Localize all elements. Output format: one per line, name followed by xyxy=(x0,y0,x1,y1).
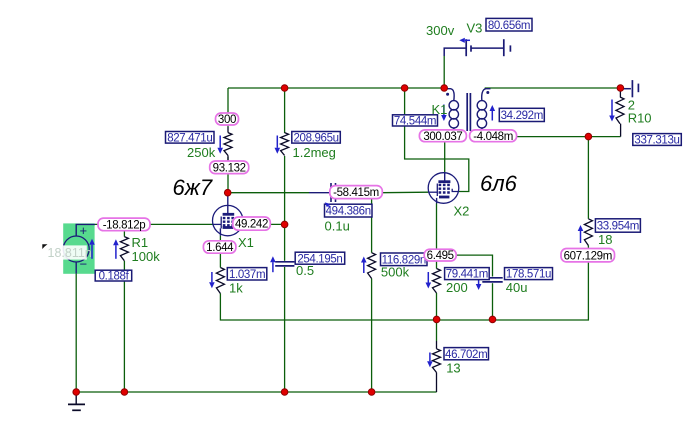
current label 33.954m xyxy=(595,219,640,232)
svg-text:93.132: 93.132 xyxy=(213,162,246,174)
current label 0.188f xyxy=(95,270,132,281)
wire 200 ohm leads xyxy=(436,261,438,269)
vacuum tube X1 cathode xyxy=(223,226,234,229)
transformer K1 secondary winding xyxy=(482,89,491,101)
transformer K1 primary current arrow xyxy=(443,105,445,116)
wire 1k bottom / mid bus / riser to 18 ohm xyxy=(220,246,588,321)
capacitor 0.5 screen bypass xyxy=(275,261,294,263)
wire transformer secondary bottom to R10 bottom xyxy=(500,136,621,138)
svg-text:0.188f: 0.188f xyxy=(99,271,130,283)
resistor 1k cathode xyxy=(216,268,224,294)
svg-text:18: 18 xyxy=(598,232,612,247)
node voltage label 300 xyxy=(216,113,239,125)
wire grid node to X1 grid xyxy=(95,223,213,225)
wire X1 screen to 1.2meg node xyxy=(243,223,285,225)
wire AC source top lead xyxy=(76,224,95,236)
svg-text:500k: 500k xyxy=(381,264,410,279)
node voltage label 1.644 xyxy=(203,241,236,253)
current label 494.386n xyxy=(325,204,373,217)
current label 74.544m xyxy=(393,115,438,126)
svg-text:X2: X2 xyxy=(454,204,470,219)
wire R1 top lead xyxy=(123,230,125,236)
wire X1 plate node to 0.1u cap xyxy=(228,192,309,194)
current label 827.471u xyxy=(166,132,215,144)
transformer K1 secondary current arrow xyxy=(491,111,493,121)
capacitor 40u xyxy=(482,277,502,279)
svg-text:33.954m: 33.954m xyxy=(597,221,639,233)
vacuum tube X2 screen jog xyxy=(452,189,459,192)
svg-text:1.037m: 1.037m xyxy=(229,269,265,281)
svg-text:74.544m: 74.544m xyxy=(394,116,436,128)
svg-text:337.313u: 337.313u xyxy=(634,135,679,147)
svg-text:6ж7: 6ж7 xyxy=(173,175,213,200)
wire 0.1u cap to X2 grid xyxy=(382,191,428,194)
wire 500k bottom to bottom bus xyxy=(371,279,373,393)
ground symbol top right xyxy=(620,88,631,90)
wire AC source bottom to bottom bus xyxy=(75,274,77,392)
wire R1 bottom to bottom bus xyxy=(123,261,125,392)
svg-text:1.2meg: 1.2meg xyxy=(293,145,336,160)
svg-text:208.965u: 208.965u xyxy=(294,132,339,144)
svg-text:34.292m: 34.292m xyxy=(501,110,543,122)
svg-text:-58.415m: -58.415m xyxy=(333,187,379,199)
wire 40u cap bottom to mid bus xyxy=(492,283,494,319)
wire 0.5 cap bottom to bottom bus xyxy=(284,267,286,392)
wire 13 ohm top lead from mid bus xyxy=(436,319,438,341)
node voltage label 300.037 xyxy=(419,130,466,142)
resistor 500k grid leak xyxy=(368,253,376,279)
svg-text:300: 300 xyxy=(218,114,236,126)
svg-text:V3: V3 xyxy=(467,21,483,36)
node voltage label -58.415m xyxy=(330,186,383,199)
AC source value tooltip 18.811n xyxy=(45,245,87,259)
svg-text:K1: K1 xyxy=(432,102,448,117)
wire 6.495 node to 40u cap xyxy=(456,255,493,276)
battery V3 current arrow xyxy=(465,39,470,41)
current label 1.037m xyxy=(227,268,266,280)
current label 208.965u xyxy=(292,132,341,144)
svg-text:-4.048m: -4.048m xyxy=(473,131,513,143)
svg-text:200: 200 xyxy=(446,280,468,295)
transformer K1 primary winding xyxy=(444,89,454,101)
svg-text:300.037: 300.037 xyxy=(423,131,462,143)
current label 79.441m xyxy=(445,268,490,280)
wire 1.2meg column top xyxy=(284,88,286,133)
resistor R10 2 ohm xyxy=(619,88,621,97)
node voltage label -18.812p xyxy=(98,218,150,231)
svg-text:1k: 1k xyxy=(229,281,243,296)
svg-text:494.386n: 494.386n xyxy=(326,206,371,218)
wire 500k column top xyxy=(371,193,373,253)
wire 18 ohm column top xyxy=(587,137,589,219)
current label 34.292m xyxy=(499,108,544,121)
vacuum tube X1 grids xyxy=(223,217,234,219)
capacitor 0.1u coupling xyxy=(309,192,331,194)
svg-text:827.471u: 827.471u xyxy=(167,132,212,144)
vacuum tube X1 plate xyxy=(227,193,229,214)
current label 46.702m xyxy=(444,348,489,360)
wire X2 cathode to 6.495 node xyxy=(436,204,438,251)
transformer K1 primary phase dot xyxy=(446,93,449,96)
svg-text:6л6: 6л6 xyxy=(480,171,518,196)
vacuum tube X2 plate xyxy=(444,173,446,181)
wire 250k column bottom to plate node xyxy=(227,157,229,193)
vacuum tube X2 6l6 envelope xyxy=(428,173,459,204)
resistor 13 xyxy=(433,349,441,373)
svg-text:-18.812p: -18.812p xyxy=(103,220,146,232)
AC source selection highlight xyxy=(63,223,94,273)
transformer K1 core xyxy=(466,93,468,131)
svg-text:49.242: 49.242 xyxy=(235,219,268,231)
AC source tooltip corner mark xyxy=(42,244,47,249)
vacuum tube X2 cathode xyxy=(439,196,449,199)
svg-text:R1: R1 xyxy=(132,235,149,250)
resistor 18 xyxy=(584,219,592,246)
node voltage label 607.129m xyxy=(561,249,615,262)
current label 116.829n xyxy=(381,253,428,266)
wire B+ top bus right (transformer secondary to R10) xyxy=(485,87,621,89)
svg-text:R10: R10 xyxy=(628,111,652,126)
svg-text:X1: X1 xyxy=(238,235,254,250)
vacuum tube X2 grids xyxy=(439,184,451,186)
svg-text:0.1u: 0.1u xyxy=(325,219,350,234)
svg-text:13: 13 xyxy=(446,360,460,375)
svg-text:250k: 250k xyxy=(187,145,216,160)
wire X1 cathode to 1k xyxy=(219,236,221,268)
svg-text:100k: 100k xyxy=(132,249,161,264)
resistor R1 100k xyxy=(120,237,128,261)
svg-text:0.5: 0.5 xyxy=(296,263,314,278)
wire 1.2meg column down to screen node and 0.5 cap xyxy=(284,156,286,261)
svg-text:+: + xyxy=(80,223,88,238)
vacuum tube X2 grid lead xyxy=(428,191,437,193)
resistor 1.2meg xyxy=(281,133,289,156)
svg-text:607.129m: 607.129m xyxy=(564,250,612,262)
wire B+ top bus left xyxy=(228,87,444,89)
svg-text:40u: 40u xyxy=(506,280,528,295)
node junction dots xyxy=(281,85,288,92)
current label 80.656m xyxy=(486,18,532,31)
svg-text:18.811n: 18.811n xyxy=(48,246,92,260)
node voltage label 6.495 xyxy=(424,249,456,261)
AC source X circle xyxy=(63,236,89,262)
wire X2 plate to transformer primary xyxy=(444,141,446,172)
transformer K1 secondary phase dot xyxy=(486,91,489,94)
svg-text:6.495: 6.495 xyxy=(427,250,454,262)
node voltage label 93.132 xyxy=(210,161,249,174)
svg-text:80.656m: 80.656m xyxy=(488,20,530,32)
wire screen supply path to X2 xyxy=(405,88,469,192)
node voltage label 49.242 xyxy=(233,217,270,230)
vacuum tube X1 grid lead xyxy=(213,223,222,225)
current label 178.571u xyxy=(505,268,553,280)
svg-text:1.644: 1.644 xyxy=(206,242,234,254)
vacuum tube X1 6zh7 envelope xyxy=(213,205,243,235)
battery V3 300v xyxy=(444,48,466,56)
node voltage label -4.048m xyxy=(470,130,517,142)
ground symbol bottom left xyxy=(75,392,77,404)
svg-text:300v: 300v xyxy=(426,23,455,38)
wire 250k column top xyxy=(227,88,229,127)
current label 337.313u xyxy=(633,134,682,146)
current label 254.195n xyxy=(295,252,345,264)
svg-text:46.702m: 46.702m xyxy=(445,349,487,361)
resistor 200 cathode X2 xyxy=(433,269,441,294)
AC source current arrow xyxy=(91,245,93,259)
capacitor 0.1u current arrow xyxy=(328,206,330,208)
resistor 250k xyxy=(224,133,232,156)
wire bottom bus xyxy=(76,391,436,393)
wire V3 to top bus xyxy=(443,56,445,88)
